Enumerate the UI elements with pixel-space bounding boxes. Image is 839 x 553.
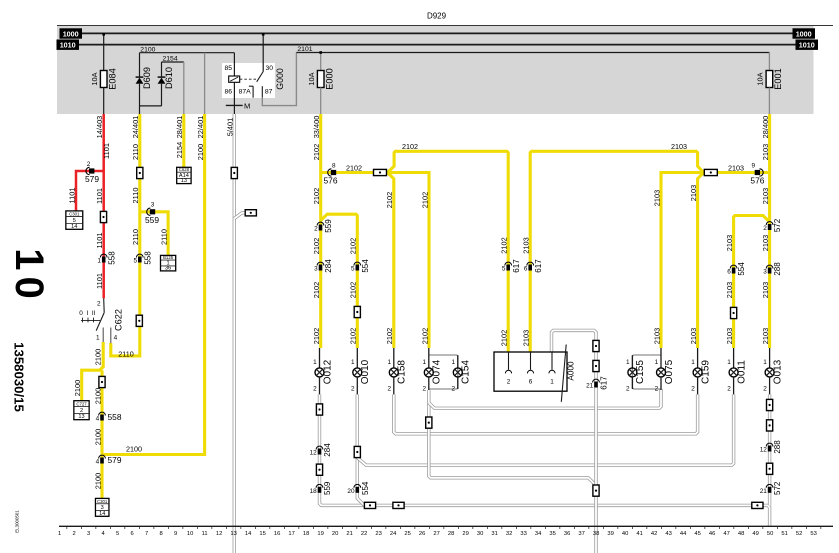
relay coil feed wire — [233, 53, 235, 76]
lamp O075 — [660, 348, 662, 368]
svg-text:579: 579 — [108, 455, 122, 465]
component C301 upper box — [66, 211, 83, 229]
svg-text:41: 41 — [636, 531, 642, 537]
svg-text:5: 5 — [133, 258, 137, 265]
splice box 617 upper — [593, 340, 599, 351]
svg-text:2103: 2103 — [725, 235, 734, 251]
connector 558 pin 5 — [136, 254, 143, 257]
connector 617 pin 5 — [505, 262, 512, 265]
svg-text:15: 15 — [259, 531, 265, 537]
relay coil to ground M — [233, 82, 235, 114]
svg-text:6: 6 — [727, 269, 731, 276]
svg-text:1: 1 — [626, 359, 630, 366]
svg-text:2: 2 — [313, 385, 317, 392]
svg-text:4: 4 — [96, 459, 100, 466]
svg-text:2110: 2110 — [131, 188, 140, 204]
ground O010 merge — [357, 394, 364, 505]
svg-text:1: 1 — [451, 359, 455, 366]
wire 2102 branch at 559 to O010 — [321, 214, 358, 348]
svg-text:42: 42 — [651, 531, 657, 537]
diode D610 — [158, 76, 166, 78]
svg-text:87: 87 — [265, 89, 273, 96]
svg-text:37: 37 — [578, 531, 584, 537]
svg-text:2103: 2103 — [725, 328, 734, 344]
svg-text:7: 7 — [145, 531, 148, 537]
svg-text:576: 576 — [750, 176, 764, 186]
wire 2103 splice down to C159 — [698, 173, 704, 349]
svg-text:1: 1 — [691, 359, 695, 366]
svg-text:8: 8 — [332, 162, 336, 169]
svg-text:48: 48 — [738, 531, 744, 537]
svg-text:O074: O074 — [432, 359, 443, 384]
lamp O013 — [769, 348, 771, 368]
svg-text:O010: O010 — [360, 359, 371, 384]
connector 559 pin 3 — [147, 208, 151, 215]
connector 559 pin 18 — [316, 484, 323, 487]
svg-text:284: 284 — [323, 443, 332, 457]
wire 2103 branch at 572 to O011 — [734, 216, 770, 349]
svg-text:19: 19 — [317, 531, 323, 537]
svg-text:1358030/15: 1358030/15 — [12, 342, 27, 412]
svg-text:288: 288 — [773, 440, 782, 454]
svg-text:9: 9 — [174, 531, 177, 537]
svg-text:2: 2 — [655, 385, 659, 392]
svg-text:10A: 10A — [90, 72, 99, 85]
ground chain O012 to bottom rail — [320, 394, 752, 505]
ground O074 branch to O075 — [429, 389, 661, 408]
connector 559 pin 2 — [317, 222, 324, 225]
svg-text:2: 2 — [451, 385, 455, 392]
splice box on 2110 — [137, 167, 143, 178]
svg-text:1101: 1101 — [67, 188, 76, 204]
unit A000 diagonal — [561, 345, 566, 402]
svg-text:2: 2 — [763, 385, 767, 392]
svg-text:2102: 2102 — [420, 192, 429, 208]
connector 617 pin 21 — [593, 379, 600, 382]
svg-text:29: 29 — [462, 531, 468, 537]
splice box on 2100 lower — [99, 376, 105, 387]
lamp C159 — [697, 348, 699, 368]
svg-text:C155: C155 — [635, 360, 646, 384]
svg-text:4: 4 — [114, 335, 118, 342]
ground M bar — [226, 104, 243, 106]
wire 2103 main (28/400) — [768, 114, 771, 348]
bottom rail right end to O013 drop — [763, 505, 769, 526]
splice box on 2102 O010 branch — [354, 306, 360, 317]
svg-text:20: 20 — [332, 531, 338, 537]
svg-text:14: 14 — [71, 224, 77, 230]
svg-text:O011: O011 — [736, 360, 747, 384]
svg-text:23: 23 — [375, 531, 381, 537]
svg-text:28/400: 28/400 — [761, 116, 770, 139]
svg-text:14: 14 — [245, 531, 252, 537]
wire 5/401 splice tap — [234, 213, 245, 219]
lamp O074 — [428, 348, 430, 368]
wire 1101 branch to C301 — [76, 171, 104, 211]
wire E084 to band exit — [103, 88, 105, 115]
connector 576 pin 9 — [760, 169, 764, 176]
svg-text:45: 45 — [694, 531, 700, 537]
wire 2102 splice up to A000 pin2 — [388, 151, 509, 352]
splice box bottom rail right — [752, 502, 763, 508]
svg-text:2: 2 — [727, 385, 731, 392]
svg-text:50: 50 — [767, 531, 773, 537]
connector 558 pin 4 — [99, 412, 106, 415]
svg-text:2103: 2103 — [761, 144, 770, 160]
svg-text:26: 26 — [419, 531, 425, 537]
svg-text:D610: D610 — [164, 67, 174, 89]
svg-text:36: 36 — [165, 265, 171, 271]
svg-text:O075: O075 — [664, 359, 675, 384]
svg-text:558: 558 — [107, 251, 116, 265]
svg-text:22: 22 — [361, 531, 367, 537]
svg-text:2110: 2110 — [131, 144, 140, 160]
svg-text:B125: B125 — [163, 255, 174, 260]
svg-text:10A: 10A — [756, 72, 765, 85]
svg-text:8: 8 — [159, 531, 162, 537]
wire diode D609 top — [139, 53, 141, 77]
svg-text:12: 12 — [216, 531, 222, 537]
svg-text:5/401: 5/401 — [226, 118, 235, 137]
svg-text:2103: 2103 — [728, 163, 744, 172]
svg-text:28/401: 28/401 — [175, 116, 184, 139]
svg-text:35: 35 — [549, 531, 555, 537]
relay switch lever — [257, 72, 264, 82]
svg-text:288: 288 — [773, 262, 782, 276]
svg-text:28: 28 — [448, 531, 454, 537]
svg-text:2154: 2154 — [175, 142, 184, 158]
connector 579 pin 2 — [86, 167, 90, 174]
svg-text:C154: C154 — [461, 360, 472, 384]
lamp O012 — [319, 348, 321, 368]
svg-text:2: 2 — [691, 385, 695, 392]
svg-text:1101: 1101 — [95, 273, 104, 289]
fuse E001 10A — [766, 71, 773, 88]
svg-text:53: 53 — [810, 531, 816, 537]
svg-text:2: 2 — [422, 385, 426, 392]
svg-text:1: 1 — [313, 359, 317, 366]
svg-text:10A: 10A — [307, 72, 316, 85]
svg-text:2: 2 — [387, 385, 391, 392]
diode D609 — [136, 76, 144, 78]
svg-text:2103: 2103 — [725, 282, 734, 298]
svg-text:C158: C158 — [397, 360, 408, 384]
lamp C154 — [457, 355, 459, 368]
wire 2110 main (24/401) — [111, 114, 140, 356]
svg-text:4: 4 — [96, 416, 100, 423]
svg-text:33: 33 — [520, 531, 526, 537]
relay contact 87 — [261, 86, 263, 98]
svg-text:3: 3 — [87, 531, 90, 537]
svg-text:2102: 2102 — [312, 328, 321, 344]
svg-text:52: 52 — [796, 531, 802, 537]
connector 617 pin 6 — [527, 262, 534, 265]
svg-text:12: 12 — [310, 450, 318, 457]
wire E084 feed from bus 1000 — [103, 33, 105, 70]
connector 284 pin 12 — [316, 446, 323, 449]
svg-text:22/401: 22/401 — [196, 116, 205, 139]
lamp O010 — [356, 348, 358, 368]
svg-text:1: 1 — [727, 359, 731, 366]
svg-text:E084: E084 — [107, 68, 117, 89]
unit A000 pin stubs — [508, 352, 510, 370]
wire 2100 band exit — [204, 53, 206, 114]
svg-text:572: 572 — [773, 218, 782, 232]
splice box O012 ground 2 — [316, 464, 322, 475]
svg-text:1: 1 — [422, 359, 426, 366]
svg-text:2102: 2102 — [312, 282, 321, 298]
svg-text:2102: 2102 — [312, 188, 321, 204]
switch C622 — [103, 298, 106, 312]
connector 558 pin 1 — [100, 254, 107, 257]
svg-text:1: 1 — [96, 335, 100, 342]
connector 554 pin 20 — [354, 484, 361, 487]
wire E001 feed — [768, 53, 770, 71]
svg-text:13: 13 — [230, 531, 236, 537]
svg-text:2103: 2103 — [671, 142, 687, 151]
lamp C158 — [393, 348, 395, 368]
connector 554 pin 6 — [730, 265, 737, 268]
splice box 617 lower — [593, 485, 599, 496]
svg-text:2102: 2102 — [420, 328, 429, 344]
svg-text:2103: 2103 — [761, 328, 770, 344]
svg-text:2103: 2103 — [761, 188, 770, 204]
svg-text:579: 579 — [85, 174, 99, 184]
svg-text:34: 34 — [535, 531, 542, 537]
svg-text:617: 617 — [534, 259, 543, 273]
svg-text:572: 572 — [773, 481, 782, 495]
component C628 box — [177, 167, 191, 183]
svg-text:6: 6 — [130, 531, 133, 537]
svg-text:D609: D609 — [142, 67, 152, 89]
svg-text:17: 17 — [288, 531, 294, 537]
relay pin 30 feed from bus 1000 — [262, 33, 264, 71]
svg-text:24: 24 — [390, 531, 397, 537]
svg-text:2102: 2102 — [349, 282, 358, 298]
bus 1010 — [79, 44, 796, 46]
pair loop O075-C155 — [632, 355, 661, 389]
wire relay 87 to net 2101 — [262, 53, 296, 106]
power distribution band — [57, 26, 814, 114]
connector 572 pin 2 — [766, 222, 773, 225]
splice box O013 ground 1 — [767, 399, 773, 410]
svg-text:39: 39 — [607, 531, 613, 537]
svg-text:46: 46 — [709, 531, 715, 537]
svg-text:32: 32 — [506, 531, 512, 537]
svg-text:2110: 2110 — [118, 350, 133, 359]
svg-text:40: 40 — [622, 531, 628, 537]
svg-text:1: 1 — [763, 359, 767, 366]
wire 2103 splice to O075 — [661, 173, 705, 349]
wire 2154 band exit — [183, 62, 185, 114]
svg-text:5: 5 — [502, 266, 506, 273]
net 2101 line — [296, 52, 769, 54]
svg-text:27: 27 — [433, 531, 439, 537]
svg-text:2102: 2102 — [346, 163, 362, 172]
splice box bottom rail 1 — [364, 502, 375, 508]
relay V000 body — [222, 63, 275, 98]
bus 1010 label left — [57, 40, 80, 50]
wire 2102 splice down to C158 — [388, 173, 394, 349]
splice box O013 ground 3 — [767, 463, 773, 474]
svg-text:51: 51 — [781, 531, 787, 537]
svg-text:617: 617 — [600, 376, 609, 390]
svg-text:C727: C727 — [76, 401, 87, 406]
svg-text:38: 38 — [593, 531, 599, 537]
svg-text:11: 11 — [202, 531, 208, 537]
svg-text:558: 558 — [143, 251, 152, 265]
svg-text:1101: 1101 — [95, 233, 104, 249]
svg-text:6: 6 — [524, 266, 528, 273]
svg-text:33/400: 33/400 — [312, 116, 321, 139]
ground rail O010 to O011 — [357, 394, 733, 465]
svg-text:47: 47 — [723, 531, 729, 537]
svg-text:284: 284 — [324, 259, 333, 273]
splice box 617 mid — [593, 360, 599, 371]
svg-text:O012: O012 — [322, 359, 333, 384]
svg-text:C622: C622 — [114, 309, 124, 331]
svg-text:2: 2 — [72, 531, 75, 537]
svg-text:13: 13 — [78, 414, 84, 420]
svg-text:2: 2 — [97, 301, 101, 308]
svg-text:1010: 1010 — [60, 41, 76, 50]
svg-text:2100: 2100 — [140, 46, 155, 53]
wire diode D609 bottom — [139, 84, 141, 114]
svg-text:20: 20 — [347, 488, 355, 495]
connector 288 pin 12 — [766, 443, 773, 446]
splice box on 2103 O011 branch — [731, 307, 737, 318]
svg-text:M: M — [244, 102, 250, 111]
splice box O013 ground 2 — [767, 420, 773, 431]
svg-text:3: 3 — [314, 266, 318, 273]
svg-text:2102: 2102 — [402, 142, 418, 151]
connector 572 pin 21 — [766, 484, 773, 487]
svg-text:2: 2 — [314, 226, 318, 233]
svg-text:2102: 2102 — [349, 328, 358, 344]
svg-text:1101: 1101 — [95, 188, 104, 204]
splice box on 2102 horizontal — [374, 169, 387, 175]
svg-text:2: 2 — [351, 385, 355, 392]
connector 288 pin 3 — [766, 265, 773, 268]
svg-text:E001: E001 — [773, 68, 783, 89]
splice box on 5/401 tap — [245, 210, 256, 216]
connector 554 pin 5 — [354, 262, 361, 265]
svg-text:2102: 2102 — [500, 330, 509, 346]
lamp C155 — [631, 355, 633, 368]
component B125 box — [161, 255, 176, 271]
svg-text:2102: 2102 — [312, 238, 321, 254]
svg-text:2103: 2103 — [522, 237, 531, 253]
svg-text:2: 2 — [626, 385, 630, 392]
connector 284 pin 3 — [317, 262, 324, 265]
wire 617 ground from A000 — [552, 330, 597, 553]
svg-text:A000: A000 — [567, 361, 576, 381]
connector 576 pin 8 — [328, 169, 332, 176]
svg-text:2: 2 — [507, 379, 511, 386]
svg-text:2100: 2100 — [93, 349, 102, 365]
svg-text:0: 0 — [79, 310, 83, 317]
svg-text:2103: 2103 — [652, 328, 661, 344]
svg-text:14/403: 14/403 — [95, 116, 104, 139]
svg-text:554: 554 — [361, 481, 370, 495]
relay contact 87A — [249, 85, 253, 87]
svg-text:2100: 2100 — [93, 473, 102, 489]
connector 579 pin 4 — [99, 455, 106, 458]
svg-text:13: 13 — [181, 178, 187, 184]
svg-text:1101: 1101 — [102, 143, 111, 159]
svg-text:2100: 2100 — [126, 445, 142, 454]
svg-text:21: 21 — [586, 383, 594, 390]
wire 2102 splice to O074 — [386, 173, 429, 349]
svg-text:1: 1 — [387, 359, 391, 366]
wire 2100 lower main — [100, 370, 103, 498]
svg-text:12: 12 — [760, 447, 768, 454]
svg-text:2100: 2100 — [196, 144, 205, 160]
svg-text:554: 554 — [361, 259, 370, 273]
splice box on 2103 horizontal — [704, 169, 717, 175]
svg-text:87A: 87A — [239, 89, 252, 96]
svg-text:559: 559 — [323, 481, 332, 495]
splice box on 2110 right — [136, 315, 142, 326]
svg-text:49: 49 — [752, 531, 758, 537]
splice box O010 ground — [354, 446, 360, 457]
wire 2102 branch at 576 to splice — [321, 171, 374, 174]
wire E000 band exit — [320, 88, 322, 115]
svg-text:1010: 1010 — [799, 41, 815, 50]
unit A000 box — [494, 352, 567, 391]
svg-text:30: 30 — [477, 531, 483, 537]
svg-text:5: 5 — [116, 531, 119, 537]
wire diode D610 top — [161, 62, 163, 77]
svg-text:2103: 2103 — [689, 328, 698, 344]
svg-text:C159: C159 — [700, 360, 711, 384]
svg-text:44: 44 — [680, 531, 687, 537]
svg-text:16: 16 — [274, 531, 280, 537]
component C301 lower box — [95, 498, 109, 516]
svg-text:C301: C301 — [69, 211, 80, 216]
svg-text:D929: D929 — [427, 12, 447, 21]
fuse E084 10A — [100, 71, 107, 88]
relay coil — [229, 76, 240, 82]
svg-text:1: 1 — [351, 359, 355, 366]
wire 2100 long vertical (22/401) — [102, 114, 205, 455]
svg-text:1000: 1000 — [796, 30, 812, 39]
svg-text:2110: 2110 — [160, 229, 169, 245]
svg-text:2102: 2102 — [385, 192, 394, 208]
svg-text:C301: C301 — [97, 499, 108, 504]
svg-text:2100: 2100 — [93, 388, 102, 404]
svg-text:31: 31 — [491, 531, 497, 537]
svg-text:2110: 2110 — [131, 229, 140, 245]
svg-text:85: 85 — [225, 65, 233, 72]
bus 1010 label right — [796, 40, 819, 50]
svg-text:18: 18 — [303, 531, 309, 537]
svg-text:617: 617 — [512, 259, 521, 273]
bus 1000 label left — [60, 28, 83, 38]
svg-text:30: 30 — [266, 65, 274, 72]
fuse E000 10A — [317, 71, 324, 88]
svg-text:3: 3 — [151, 202, 155, 209]
wire E000 feed — [320, 53, 322, 71]
lamp O011 — [733, 348, 735, 368]
svg-text:24/401: 24/401 — [131, 116, 140, 139]
svg-text:2103: 2103 — [689, 185, 698, 201]
svg-text:2: 2 — [87, 161, 91, 168]
svg-text:1: 1 — [550, 379, 554, 386]
net 2154 line — [162, 61, 184, 63]
bus 1000 label right — [793, 28, 816, 38]
net 2100 bus line — [140, 52, 235, 54]
